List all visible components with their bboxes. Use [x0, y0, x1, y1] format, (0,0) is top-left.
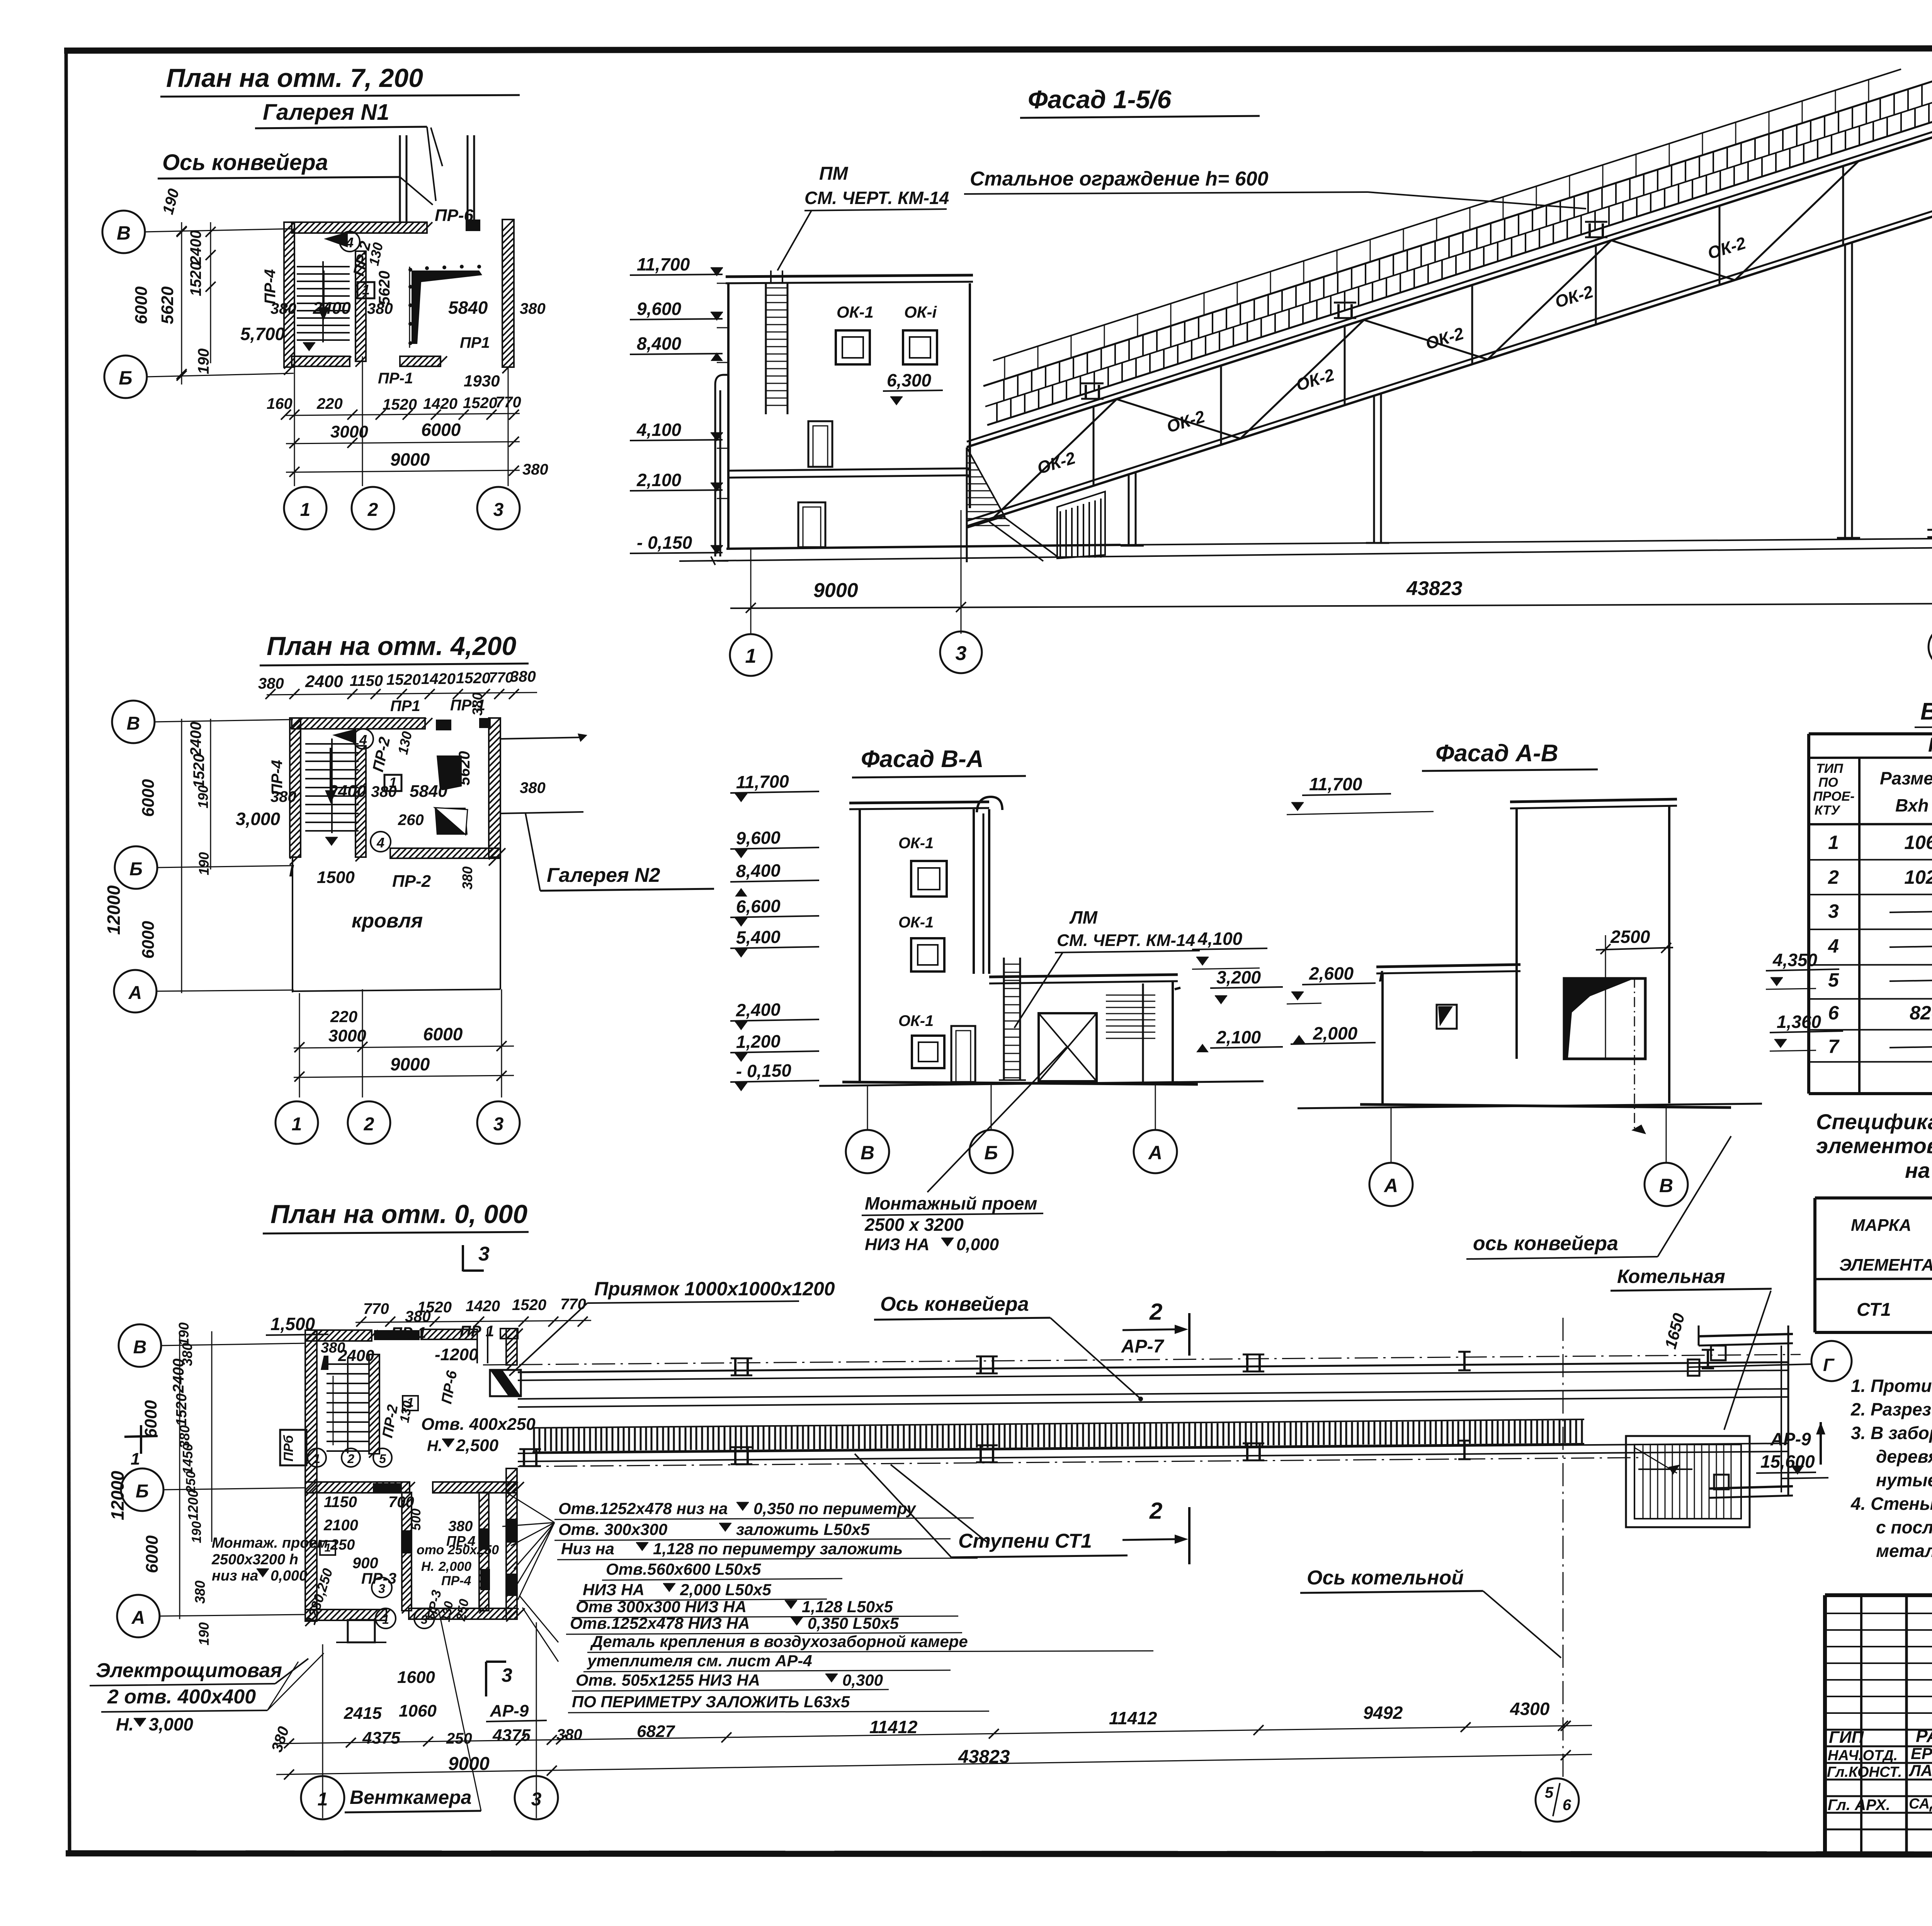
table: vedomost data rows — [1828, 832, 1932, 1057]
svg-text:ПР-1: ПР-1 — [378, 370, 413, 387]
svg-text:11,700: 11,700 — [637, 254, 690, 274]
conveyor band: gallery walls in plan — [518, 1362, 1788, 1462]
svg-text:План на отм. 0, 000: План на отм. 0, 000 — [270, 1199, 527, 1229]
svg-text:Н.: Н. — [421, 1559, 434, 1574]
svg-text:Проемы: Проемы — [1928, 734, 1932, 756]
svg-text:МАРКА: МАРКА — [1851, 1216, 1912, 1235]
svg-text:СТ1: СТ1 — [1857, 1300, 1891, 1320]
facade 1-5/6 level marks — [630, 254, 728, 561]
svg-text:4,100: 4,100 — [636, 420, 682, 440]
svg-text:380: 380 — [258, 675, 284, 692]
facade B-A title — [852, 746, 1026, 778]
title block signatures — [1827, 1706, 1932, 1826]
plan 4.200 dimension texts inner — [236, 730, 546, 891]
facade B-A left level marks — [730, 771, 819, 1091]
svg-text:220: 220 — [330, 1007, 357, 1026]
plan 4.200 title — [260, 631, 529, 665]
plan 0.000 left dimension columns — [107, 1322, 212, 1645]
svg-text:3: 3 — [378, 1582, 385, 1596]
svg-text:1. Противоположный фасад гал: 1. Противоположный фасад галерей - зерка… — [1851, 1376, 1932, 1396]
svg-text:11,700: 11,700 — [736, 771, 789, 792]
svg-text:4,350: 4,350 — [1772, 950, 1818, 970]
svg-text:Б: Б — [136, 1481, 149, 1502]
svg-text:ось конвейера: ось конвейера — [1473, 1232, 1618, 1255]
svg-text:В: В — [127, 713, 140, 734]
svg-text:КТУ: КТУ — [1815, 803, 1841, 818]
gallery I-beam fixing marks — [1081, 222, 1607, 399]
plan 0.000 walls top row — [305, 1329, 523, 1621]
svg-text:Галерея N2: Галерея N2 — [547, 864, 660, 886]
svg-text:ПР1: ПР1 — [390, 698, 420, 715]
label ось котельной — [1300, 1567, 1561, 1658]
svg-text:1150: 1150 — [350, 672, 383, 689]
svg-text:1: 1 — [131, 1450, 140, 1468]
svg-text:НАЧ.ОТД.: НАЧ.ОТД. — [1828, 1747, 1898, 1764]
table title: Ведомость проемов ворот и дверей — [1915, 698, 1932, 727]
svg-text:6: 6 — [1563, 1797, 1571, 1814]
svg-text:5620: 5620 — [158, 286, 177, 324]
svg-text:Приямок 1000х1000х1200: Приямок 1000х1000х1200 — [594, 1278, 835, 1300]
facade A-B axis circles А В — [1369, 1105, 1688, 1206]
svg-text:1150: 1150 — [324, 1494, 357, 1511]
svg-text:ЛМ: ЛМ — [1069, 907, 1098, 927]
svg-text:3: 3 — [493, 500, 504, 520]
svg-text:2500: 2500 — [1610, 927, 1650, 947]
svg-text:6,600: 6,600 — [736, 896, 781, 917]
svg-text:5620: 5620 — [456, 751, 473, 786]
svg-text:Деталь крепления в воздух: Деталь крепления в воздухозаборной камер… — [590, 1632, 968, 1650]
boiler plan rotated dim 1650 — [1661, 1311, 1688, 1351]
svg-text:7: 7 — [1828, 1036, 1840, 1057]
svg-text:1: 1 — [292, 1114, 302, 1135]
svg-text:380: 380 — [510, 668, 536, 685]
svg-text:5620: 5620 — [376, 271, 393, 305]
plan 0.000 title — [263, 1199, 529, 1234]
svg-text:380: 380 — [469, 692, 485, 716]
svg-text:380: 380 — [522, 461, 548, 478]
plan 0.000 stair upper — [321, 1340, 374, 1453]
svg-text:1600: 1600 — [397, 1668, 435, 1687]
svg-text:4. Стены воздухозаборной: 4. Стены воздухозаборной камеры утеплить… — [1850, 1494, 1932, 1514]
svg-text:НИЗ НА: НИЗ НА — [583, 1581, 645, 1599]
table: vedomost grid — [1809, 734, 1932, 1094]
svg-text:6000: 6000 — [139, 779, 158, 817]
svg-text:Отв.560х600 L50х5: Отв.560х600 L50х5 — [606, 1560, 761, 1578]
plan 4.200 black door wedges — [435, 755, 468, 835]
svg-text:380: 380 — [405, 1308, 431, 1325]
svg-text:220: 220 — [316, 395, 343, 412]
label ЛМ см.черт.КМ-14 (facade B-A) — [1014, 907, 1200, 1028]
label Стальное ограждение h=600 with leader — [964, 168, 1586, 209]
svg-text:2400: 2400 — [328, 782, 366, 801]
svg-text:3: 3 — [956, 642, 967, 665]
svg-text:ОК-1: ОК-1 — [898, 835, 934, 852]
svg-text:кровля: кровля — [352, 910, 423, 932]
svg-text:1060: 1060 — [399, 1701, 437, 1720]
svg-text:3,200: 3,200 — [1216, 967, 1261, 987]
section mark 2 lower — [1122, 1498, 1189, 1564]
svg-text:380: 380 — [321, 1340, 345, 1356]
plan 0.000 dims rotated left inner — [303, 1494, 499, 1628]
gallery bottom chord — [967, 210, 1932, 526]
tower windows OK-1 upper — [836, 303, 937, 364]
svg-text:1: 1 — [362, 282, 370, 298]
svg-text:САДРЕТДИНОВ: САДРЕТДИНОВ — [1909, 1796, 1932, 1812]
svg-text:1520: 1520 — [187, 262, 204, 296]
svg-text:1520: 1520 — [386, 671, 421, 688]
section mark 2/АР-7 upper — [1121, 1299, 1189, 1357]
svg-text:2 отв. 400х400: 2 отв. 400х400 — [107, 1686, 256, 1708]
svg-text:ПР-6: ПР-6 — [435, 206, 474, 225]
facade axis circle 1 — [730, 634, 772, 676]
svg-text:6,300: 6,300 — [887, 370, 932, 390]
svg-text:5840: 5840 — [448, 298, 488, 318]
svg-text:Стальное ограждение h= 600: Стальное ограждение h= 600 — [970, 168, 1269, 190]
svg-text:0,000: 0,000 — [956, 1235, 999, 1254]
svg-text:1520: 1520 — [383, 396, 417, 413]
svg-text:ПО: ПО — [1818, 775, 1838, 790]
svg-text:ОК-1: ОК-1 — [898, 914, 934, 931]
svg-text:260: 260 — [398, 812, 424, 829]
svg-text:заложить L50х5: заложить L50х5 — [736, 1520, 870, 1538]
svg-text:А: А — [1148, 1142, 1162, 1164]
plan 0.000 приямок pit — [490, 1370, 521, 1396]
svg-text:4: 4 — [359, 732, 367, 748]
svg-text:1: 1 — [1828, 832, 1839, 853]
svg-text:1200: 1200 — [185, 1490, 201, 1521]
svg-text:2,000: 2,000 — [1313, 1023, 1358, 1043]
svg-text:1,128 L50х5: 1,128 L50х5 — [802, 1598, 893, 1616]
svg-text:6000: 6000 — [132, 286, 151, 324]
svg-text:3000: 3000 — [328, 1026, 366, 1045]
svg-text:утеплителя см. лист АР-4: утеплителя см. лист АР-4 — [587, 1652, 812, 1670]
plan 7.200 left dimension texts — [132, 187, 216, 385]
svg-text:Электрощитовая: Электрощитовая — [96, 1659, 282, 1682]
svg-text:2: 2 — [347, 1452, 354, 1466]
plan 0.000 section mark 3/АР-9 bottom — [486, 1662, 547, 1722]
svg-text:1,500: 1,500 — [270, 1314, 315, 1334]
svg-text:ПРОЕ-: ПРОЕ- — [1813, 789, 1855, 804]
facade A-B right level marks — [1766, 950, 1843, 1051]
svg-text:2400: 2400 — [313, 299, 351, 318]
svg-text:1020 X 2080: 1020 X 2080 — [1904, 866, 1932, 888]
svg-text:900: 900 — [352, 1555, 378, 1572]
plan 0.000 монтаж проем text — [211, 1535, 328, 1584]
svg-text:1520: 1520 — [512, 1296, 546, 1313]
svg-text:8,400: 8,400 — [736, 860, 781, 881]
svg-text:на данном листе.: на данном листе. — [1905, 1158, 1932, 1182]
svg-text:Вхh мм: Вхh мм — [1895, 795, 1932, 815]
svg-text:1: 1 — [382, 1613, 389, 1627]
svg-text:0,000: 0,000 — [270, 1568, 307, 1584]
svg-text:380: 380 — [371, 783, 397, 800]
svg-text:1,200: 1,200 — [736, 1031, 781, 1052]
svg-text:3: 3 — [478, 1243, 490, 1265]
plan 7.200 title — [160, 63, 520, 201]
svg-text:2500 х 3200: 2500 х 3200 — [864, 1215, 964, 1235]
svg-text:6000: 6000 — [143, 1535, 162, 1573]
gallery top chord — [967, 131, 1932, 447]
svg-text:2: 2 — [1149, 1299, 1162, 1325]
svg-text:Фасад 1-5/6: Фасад 1-5/6 — [1028, 85, 1172, 114]
label Ступени СТ1 — [855, 1454, 1128, 1557]
svg-text:Ведомость проемов ворот: Ведомость проемов ворот и дверей — [1920, 698, 1932, 725]
svg-text:1: 1 — [300, 500, 311, 520]
gallery roof railing h=600 — [993, 69, 1901, 379]
svg-text:3: 3 — [502, 1664, 512, 1686]
svg-text:380: 380 — [179, 1343, 195, 1366]
svg-text:Размер в кладке: Размер в кладке — [1880, 768, 1932, 788]
svg-text:770: 770 — [363, 1300, 389, 1317]
conveyor band: axis dash-dot lines — [483, 1354, 1801, 1467]
svg-text:ПР-4: ПР-4 — [269, 760, 286, 795]
svg-text:6000: 6000 — [421, 420, 461, 440]
plan 0.000 bottom dimension chain — [268, 1668, 1592, 1780]
svg-text:Ось котельной: Ось котельной — [1307, 1567, 1464, 1589]
svg-text:3: 3 — [1828, 900, 1839, 922]
tower lower door — [798, 502, 825, 547]
svg-text:2,000 L50х5: 2,000 L50х5 — [680, 1581, 772, 1599]
svg-text:2,500: 2,500 — [456, 1436, 499, 1455]
svg-text:2400: 2400 — [187, 722, 204, 757]
svg-text:ЭЛЕМЕНТА: ЭЛЕМЕНТА — [1839, 1256, 1932, 1274]
svg-text:9,600: 9,600 — [736, 827, 781, 848]
plan 0.000 walls left and interior — [305, 1330, 525, 1626]
svg-text:11412: 11412 — [869, 1717, 918, 1737]
gallery support column 1 — [1121, 472, 1144, 546]
facade B-A hatched wall patch — [1106, 988, 1180, 1038]
svg-text:Низ на: Низ на — [561, 1540, 614, 1558]
svg-text:2,000: 2,000 — [438, 1559, 471, 1574]
plan 0.000 top dimension chain — [266, 1296, 591, 1341]
tower door at 4.100 — [808, 421, 832, 467]
svg-text:9000: 9000 — [813, 579, 858, 602]
svg-text:160: 160 — [267, 395, 293, 412]
svg-text:1420: 1420 — [421, 670, 456, 687]
svg-text:0,300: 0,300 — [842, 1671, 883, 1689]
svg-text:1930: 1930 — [464, 372, 500, 390]
svg-text:1420: 1420 — [423, 395, 457, 412]
plan 7.200 axis circle В — [102, 211, 292, 253]
axis Г circle — [1688, 1341, 1852, 1381]
svg-text:250: 250 — [446, 1730, 472, 1747]
svg-text:1520: 1520 — [173, 1393, 190, 1426]
label АР-9 15,600 with section arrow — [1756, 1422, 1828, 1479]
table: vedomost header texts — [1813, 733, 1932, 818]
svg-text:0,350 по периметру: 0,350 по периметру — [753, 1499, 917, 1518]
tower fire ladder — [766, 271, 787, 414]
svg-text:с последующим оштукатуривани: с последующим оштукатуриванием толщиной … — [1876, 1517, 1932, 1537]
label ось конвейера under facade A-B — [1466, 978, 1731, 1259]
svg-text:- 0,150: - 0,150 — [736, 1060, 792, 1081]
gallery support column 2 — [1366, 394, 1389, 543]
svg-text:АР-9: АР-9 — [1770, 1429, 1811, 1449]
plan 4.200 stair — [305, 738, 359, 846]
svg-text:Б: Б — [119, 367, 132, 389]
svg-text:В: В — [1659, 1175, 1673, 1196]
svg-text:Фасад А-В: Фасад А-В — [1435, 740, 1558, 767]
svg-text:15,600: 15,600 — [1760, 1451, 1815, 1472]
svg-text:АР-7: АР-7 — [1121, 1336, 1165, 1357]
facade A-B title — [1422, 740, 1598, 771]
svg-text:6000: 6000 — [423, 1024, 463, 1044]
svg-text:ОК-1: ОК-1 — [837, 303, 874, 321]
plan 0.000 axis circles В Б А — [117, 1324, 305, 1637]
svg-text:190: 190 — [196, 852, 212, 875]
gallery hatched abutment wedge — [967, 447, 1105, 562]
svg-text:I: I — [289, 861, 294, 880]
spec table left (precast concrete elements) — [1815, 1198, 1932, 1332]
svg-text:380: 380 — [520, 779, 546, 796]
boiler house wall (right) — [1927, 54, 1932, 537]
svg-text:1060 X 2100: 1060 X 2100 — [1904, 832, 1932, 853]
plan 4.200 галерея N2 label and leaders — [500, 733, 714, 891]
svg-text:ПР-2: ПР-2 — [392, 872, 431, 891]
level 6,300 mark inside tower — [883, 370, 943, 405]
plan 7.200 label ось конвейера — [158, 150, 433, 205]
svg-text:2100: 2100 — [323, 1517, 358, 1534]
svg-text:1: 1 — [745, 645, 757, 667]
svg-text:3,000: 3,000 — [149, 1714, 194, 1734]
svg-text:СМ. ЧЕРТ. КМ-14: СМ. ЧЕРТ. КМ-14 — [1057, 931, 1195, 950]
gallery roof band with panels — [983, 80, 1932, 425]
plan 4.200 axis circles В Б А — [112, 701, 294, 1012]
facade A-B ground — [1298, 1104, 1762, 1108]
label ось конвейера (bottom plan) — [874, 1293, 1143, 1401]
plan 0.000 axis circles 1 3 and венткамера — [301, 1610, 558, 1819]
svg-text:Ось конвейера: Ось конвейера — [162, 150, 328, 175]
facade A-B annex — [1376, 965, 1520, 1105]
svg-text:2415: 2415 — [344, 1704, 382, 1723]
svg-text:43823: 43823 — [1406, 577, 1463, 600]
svg-text:5: 5 — [1545, 1784, 1554, 1801]
svg-text:2: 2 — [1828, 866, 1839, 888]
svg-text:380: 380 — [520, 300, 546, 317]
svg-text:9000: 9000 — [390, 1054, 430, 1074]
callout fan: отверстия annotations — [502, 1492, 1153, 1713]
plan 4.200 bottom dimensions — [294, 1007, 514, 1082]
svg-text:Ступени СТ1: Ступени СТ1 — [958, 1530, 1092, 1552]
svg-text:5: 5 — [1828, 969, 1839, 991]
facade axis circle 3 — [940, 631, 982, 673]
svg-text:190: 190 — [176, 1322, 192, 1346]
svg-text:ПР1: ПР1 — [460, 334, 490, 351]
svg-text:ГИП: ГИП — [1829, 1728, 1864, 1747]
label Приямок 1000х1000х1200 — [509, 1278, 835, 1376]
svg-text:1520: 1520 — [190, 754, 207, 788]
svg-text:1520: 1520 — [463, 395, 497, 412]
svg-text:I: I — [1379, 968, 1383, 985]
svg-text:5,700: 5,700 — [240, 324, 285, 344]
facade B-A axis circles В Б А — [846, 1083, 1177, 1173]
facade A-B tall tower — [1510, 799, 1677, 1103]
svg-text:Отв.1252х478 НИЗ НА: Отв.1252х478 НИЗ НА — [570, 1614, 750, 1632]
label Котельная (bottom plan) — [1611, 1266, 1772, 1430]
notes: Примечания — [1850, 1335, 1932, 1561]
facade B-A door — [951, 1026, 975, 1082]
svg-text:Н.: Н. — [116, 1714, 134, 1734]
svg-text:770: 770 — [489, 670, 513, 686]
svg-text:Гл.КОНСТ.: Гл.КОНСТ. — [1827, 1764, 1902, 1780]
svg-text:4,100: 4,100 — [1197, 929, 1243, 949]
plan 7.200 stair — [297, 261, 350, 351]
facade axis circle 5/6 — [1929, 626, 1932, 668]
plan 0.000 vestibule ПРб — [280, 1430, 392, 1467]
title block frame — [1825, 1595, 1932, 1854]
plan 4.200 walls — [290, 718, 505, 866]
conveyor band: stair tread hatch СТ1 — [532, 1419, 1584, 1452]
facade 1-5/6 title — [1020, 85, 1260, 118]
facade tower walls — [726, 275, 973, 549]
svg-text:820 X 2080: 820 X 2080 — [1910, 1002, 1932, 1024]
svg-text:Отв.1252х478 низ на: Отв.1252х478 низ на — [558, 1499, 728, 1518]
boiler house plan stair — [1626, 1436, 1750, 1527]
svg-text:ПРб: ПРб — [281, 1435, 296, 1462]
plan 7.200 inner dimension texts — [240, 206, 546, 390]
svg-text:380: 380 — [459, 866, 475, 890]
plan 4.200 roof outline кровля — [293, 857, 500, 992]
svg-text:770: 770 — [560, 1296, 586, 1313]
svg-text:2: 2 — [364, 1114, 374, 1135]
svg-text:1,128 по периметру заложить: 1,128 по периметру заложить — [653, 1540, 903, 1558]
facade B-A drain pipe — [977, 797, 1002, 974]
svg-text:Фасад В-А: Фасад В-А — [861, 746, 984, 772]
spec tables titles — [1816, 1109, 1932, 1182]
svg-text:380: 380 — [448, 1518, 473, 1535]
svg-text:190: 190 — [189, 1521, 204, 1543]
svg-text:500: 500 — [409, 1509, 423, 1531]
svg-text:190: 190 — [196, 1622, 212, 1645]
svg-text:1: 1 — [318, 1789, 328, 1810]
svg-text:2,100: 2,100 — [636, 470, 682, 490]
plan 7.200 gallery stub walls above — [400, 128, 474, 222]
svg-text:1450: 1450 — [180, 1443, 196, 1474]
svg-text:Гл. АРХ.: Гл. АРХ. — [1828, 1797, 1890, 1814]
svg-text:ПР-4: ПР-4 — [441, 1574, 471, 1588]
svg-text:11412: 11412 — [1109, 1708, 1157, 1728]
facade B-A tower — [819, 802, 1264, 1086]
svg-text:металлической сетке и окра: металлической сетке и окрасить масляной … — [1876, 1541, 1932, 1561]
facade A-B left level marks — [1287, 963, 1383, 1044]
svg-text:А: А — [131, 1608, 145, 1628]
svg-text:3. В заборное отверстие при: 3. В заборное отверстие приточной камеры… — [1851, 1423, 1932, 1443]
facade B-A annex — [989, 975, 1178, 1082]
svg-text:2,600: 2,600 — [1309, 963, 1354, 983]
svg-text:1520: 1520 — [456, 670, 490, 687]
svg-text:3: 3 — [531, 1789, 542, 1810]
svg-text:2500х3200 h: 2500х3200 h — [211, 1552, 298, 1568]
svg-text:700: 700 — [388, 1494, 414, 1511]
plan 7.200 axis circles 1 2 3 — [284, 356, 520, 529]
plan 0.000 bottom axis circle 5/6 — [1536, 1778, 1579, 1822]
svg-text:380: 380 — [192, 1581, 208, 1604]
svg-text:Отв. 505х1255 НИЗ НА: Отв. 505х1255 НИЗ НА — [576, 1671, 760, 1689]
svg-text:4300: 4300 — [1510, 1699, 1550, 1719]
svg-text:низ на: низ на — [212, 1568, 258, 1584]
boiler house plan walls — [1688, 1325, 1793, 1498]
svg-text:9,600: 9,600 — [637, 299, 682, 319]
svg-text:Отв. 400х250: Отв. 400х250 — [421, 1415, 536, 1434]
svg-text:2400: 2400 — [187, 230, 204, 265]
svg-text:В: В — [861, 1142, 874, 1164]
plan 7.200 walls — [284, 219, 514, 375]
svg-text:Галерея N1: Галерея N1 — [263, 100, 389, 125]
label ПМ см.черт.КМ-14 with leader — [777, 163, 949, 271]
conveyor band: I-beam symbols — [519, 1350, 1714, 1466]
svg-text:Б: Б — [129, 859, 143, 880]
plan 7.200 door wedges (black) — [408, 265, 482, 348]
plan 4.200 left dimension texts — [104, 719, 212, 993]
